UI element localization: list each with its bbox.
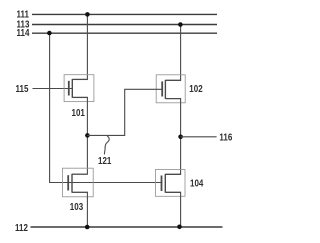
label 121	[98, 155, 111, 166]
label 112	[15, 222, 28, 233]
transistor U103 drain arm	[72, 173, 88, 175]
label 103	[70, 201, 83, 212]
wire T102 source to T104 drain	[180, 99, 182, 175]
wire 111 to T101 drain	[86, 14, 88, 79]
junction dot on 112 left	[85, 225, 90, 230]
transistor U102 channel bar	[164, 80, 166, 99]
power line 113	[32, 24, 217, 26]
transistor U103 box	[63, 168, 94, 197]
svg-text:103: 103	[70, 201, 83, 212]
transistor U101 source arm	[72, 96, 88, 98]
label 114	[17, 27, 30, 38]
svg-text:112: 112	[15, 222, 28, 233]
label 104	[190, 178, 203, 189]
wire T101 source to T103 drain	[86, 97, 88, 174]
junction dot on 113	[178, 22, 183, 27]
power line 112	[31, 226, 223, 228]
wire 113 to T102 drain	[180, 25, 182, 81]
transistor U101 box	[64, 75, 94, 102]
transistor U102 gate bar	[161, 81, 163, 96]
transistor U103 source arm	[72, 191, 88, 193]
svg-text:115: 115	[16, 83, 29, 94]
transistor U104 drain arm	[165, 173, 181, 175]
junction dot on 114	[47, 31, 52, 36]
transistor U102 drain arm	[165, 79, 181, 81]
transistor U104 channel bar	[164, 174, 166, 193]
wire T103 source to 112	[86, 192, 88, 227]
svg-text:102: 102	[189, 83, 202, 94]
label 115	[16, 83, 29, 94]
junction dot on 111	[85, 12, 90, 17]
label 113	[17, 19, 30, 30]
transistor U102 box	[156, 75, 185, 103]
transistor U104 box	[156, 170, 186, 197]
power line 111	[32, 13, 217, 15]
node 116 junction dot	[178, 135, 183, 140]
transistor U104 gate bar	[161, 176, 163, 192]
wire 114 down to gates of T103/T104	[50, 33, 163, 182]
svg-text:114: 114	[17, 27, 30, 38]
gate lead 115	[33, 88, 73, 90]
node 121 junction dot	[85, 133, 90, 138]
svg-text:116: 116	[219, 132, 232, 143]
transistor U101 channel bar	[71, 79, 73, 98]
label 111	[17, 8, 29, 19]
transistor U101 gate bar	[68, 81, 70, 96]
wire node 121 to T102 gate	[87, 89, 162, 135]
transistor U103 channel bar	[71, 174, 73, 193]
svg-text:104: 104	[190, 178, 203, 189]
label 102	[189, 83, 202, 94]
svg-text:121: 121	[98, 155, 111, 166]
wire T104 source to 112	[180, 192, 182, 227]
label 101	[72, 107, 85, 118]
svg-text:101: 101	[72, 107, 85, 118]
transistor U103 gate bar	[67, 175, 69, 190]
power line 114	[32, 32, 217, 34]
transistor U104 source arm	[165, 191, 181, 193]
label 116	[219, 132, 232, 143]
transistor U101 drain arm	[72, 78, 88, 80]
node 116 lead	[181, 136, 217, 138]
squiggle leader for 121	[104, 136, 109, 155]
junction dot on 112 right	[177, 225, 182, 230]
transistor U102 source arm	[165, 98, 181, 100]
